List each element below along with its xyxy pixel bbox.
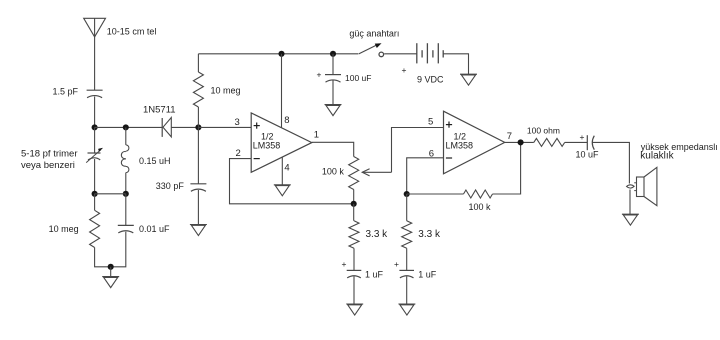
svg-text:10 uF: 10 uF (576, 149, 600, 159)
resistor R6 100 k feedback (464, 190, 493, 198)
wire C4 down to node G (111, 232, 126, 267)
svg-text:0.15 uH: 0.15 uH (139, 156, 171, 166)
ground (U1 pin4) (274, 185, 291, 196)
wire R7 to C5 (565, 141, 588, 143)
wire earphone to ground (629, 190, 631, 215)
wire node C to pin 3 (198, 126, 251, 128)
svg-text:1 uF: 1 uF (365, 270, 384, 280)
wire C3 to ground (197, 190, 199, 224)
capacitor C4 0.01 uF (118, 225, 134, 233)
ground (C6) (346, 304, 363, 315)
svg-text:8: 8 (284, 115, 289, 126)
wire antenna cap to node A (94, 97, 96, 128)
svg-text:+: + (394, 259, 399, 269)
label - input U1 (254, 158, 260, 160)
capacitor C1 1.5 pF (87, 90, 103, 98)
svg-text:LM358: LM358 (253, 140, 281, 150)
svg-text:1N5711: 1N5711 (143, 105, 176, 116)
node D junction (351, 201, 357, 207)
svg-text:+: + (342, 259, 347, 269)
svg-text:10 meg: 10 meg (211, 86, 241, 96)
wire pin 2 feedback (230, 159, 354, 204)
node A junction (92, 124, 98, 130)
wire R1 to power rail (197, 54, 199, 72)
ground (C2) (325, 105, 342, 116)
earphone SP1 (627, 167, 657, 205)
resistor R7 100 ohm (534, 138, 565, 146)
capacitor C2 100 uF (325, 75, 341, 83)
svg-text:5: 5 (428, 117, 433, 128)
wire R6 to output node (493, 142, 521, 194)
svg-text:güç anahtarı: güç anahtarı (349, 29, 399, 39)
node G junction (108, 264, 114, 270)
svg-text:+: + (580, 132, 585, 142)
resistor R2 10 meg (90, 210, 100, 247)
switch S1 guc anahtari (359, 44, 384, 57)
wire rail to C2 (332, 54, 334, 75)
svg-text:5-18 pf trimer: 5-18 pf trimer (21, 149, 78, 160)
wire node H to R5 (406, 194, 408, 221)
trimmer capacitor CT 5-18 pf (86, 148, 102, 163)
wire R4 to C6 (353, 248, 355, 270)
label + input U2 (446, 122, 452, 128)
wire node F to C4 (125, 194, 127, 226)
wire node C up to R1 (197, 107, 199, 127)
wire C7 to ground (406, 277, 408, 304)
node V+ junction pin8 (278, 51, 284, 57)
node E junction (92, 191, 98, 197)
ground (node G) (102, 277, 119, 288)
pot wiper arrow (362, 169, 391, 176)
svg-text:1: 1 (314, 130, 319, 141)
svg-text:2: 2 (236, 148, 241, 159)
svg-text:3.3 k: 3.3 k (418, 229, 441, 240)
svg-text:4: 4 (284, 163, 289, 174)
svg-text:10 meg: 10 meg (49, 224, 79, 234)
resistor R5 3.3 k (402, 221, 412, 249)
svg-text:1 uF: 1 uF (418, 270, 437, 280)
capacitor C3 330 pF (190, 184, 206, 192)
wire node G to ground (110, 267, 112, 277)
node B junction (inductor top) (123, 124, 129, 130)
wire C6 to ground (353, 277, 355, 304)
wire main row left (95, 126, 163, 128)
battery B1 9 VDC (417, 43, 443, 63)
wire node E to R2 (94, 194, 96, 211)
wire battery to ground (443, 54, 468, 74)
svg-text:100 k: 100 k (322, 167, 345, 177)
ground (C3) (190, 225, 207, 236)
svg-text:veya benzeri: veya benzeri (21, 160, 75, 171)
wire pin 6 to node H (407, 158, 444, 194)
svg-text:100 uF: 100 uF (345, 73, 371, 83)
svg-text:1.5 pF: 1.5 pF (52, 87, 78, 97)
capacitor C7 1 uF (399, 270, 414, 278)
wire C2 to ground (332, 81, 334, 105)
label - input U2 (446, 157, 452, 159)
ground (earphone) (622, 214, 639, 225)
wire C5 to earphone (593, 142, 630, 183)
svg-text:0.01 uF: 0.01 uF (139, 224, 170, 234)
wire trimmer to node E (94, 159, 96, 194)
capacitor C6 1 uF (347, 270, 362, 278)
svg-text:330 pF: 330 pF (156, 181, 185, 191)
op-amp U1A LM358 (251, 113, 312, 172)
wire R2 down to node G (95, 248, 111, 267)
node V+ junction C2 (330, 51, 336, 57)
svg-text:100 ohm: 100 ohm (527, 126, 560, 136)
wire R5 to C7 (406, 248, 408, 270)
node H junction (404, 191, 410, 197)
wire pot bottom to node D (353, 190, 355, 204)
label + input U1 (254, 123, 260, 129)
wire pin 4 (281, 157, 283, 184)
wire pin 8 (281, 54, 283, 128)
svg-text:+: + (317, 70, 322, 80)
ground (C7) (398, 304, 415, 315)
potentiometer R3 100 k (349, 157, 359, 190)
wire switch to battery (384, 53, 417, 55)
resistor R1 10 meg (193, 72, 203, 107)
svg-text:kulaklık: kulaklık (640, 151, 674, 162)
wire node H to R6 (407, 193, 464, 195)
ground (battery) (460, 74, 477, 85)
wire node C to C3 (197, 127, 199, 183)
capacitor C5 10 uF (587, 135, 594, 150)
svg-text:+: + (402, 65, 407, 75)
svg-text:10-15 cm tel: 10-15 cm tel (107, 27, 157, 37)
wire node A to trimmer (94, 127, 96, 153)
diode D1 1N5711 (162, 118, 198, 137)
inductor L1 0.15 uH (121, 145, 129, 173)
svg-text:3.3 k: 3.3 k (366, 229, 389, 240)
svg-text:9 VDC: 9 VDC (417, 75, 444, 85)
wire power rail (198, 53, 358, 55)
svg-text:7: 7 (507, 131, 512, 142)
wire output pin 7 (505, 141, 534, 143)
svg-text:3: 3 (235, 117, 240, 128)
wire inductor bottom (125, 173, 127, 194)
wire wiper to pin 5 (392, 128, 444, 173)
node F junction (123, 191, 129, 197)
svg-text:LM358: LM358 (446, 140, 474, 150)
wire inductor top (125, 127, 127, 144)
op-amp U1B LM358 (444, 111, 505, 174)
wire node D to R4 (353, 204, 355, 221)
svg-text:100 k: 100 k (469, 202, 492, 212)
wire node E to node F (95, 193, 126, 195)
antenna (84, 18, 106, 90)
node I junction (output) (518, 139, 524, 145)
wire output pin 1 (312, 142, 354, 156)
resistor R4 3.3 k (349, 221, 359, 249)
node C junction (195, 124, 201, 130)
